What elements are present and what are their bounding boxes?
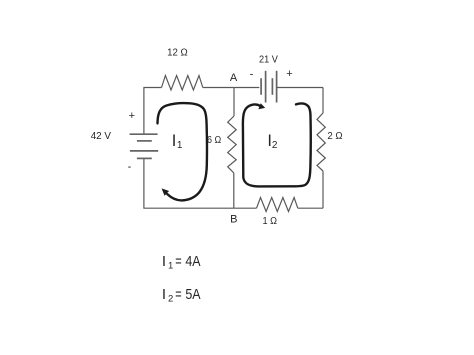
wire node A to 21V battery — [234, 87, 259, 89]
answer text I1 = 4A — [162, 253, 201, 272]
svg-text:I: I — [172, 132, 177, 150]
battery 42V plates — [130, 134, 159, 158]
svg-text:+: + — [129, 110, 135, 122]
wire left vertical (top segment above 42V battery) — [143, 88, 145, 135]
svg-text:2 Ω: 2 Ω — [327, 130, 342, 142]
svg-text:-: - — [250, 69, 254, 81]
wire bottom-right corner to 1 ohm — [298, 207, 323, 209]
svg-text:1: 1 — [177, 140, 183, 151]
mesh current loop I2 arrowhead — [258, 103, 265, 109]
wire left vertical (bottom segment below 42V battery) — [143, 158, 145, 208]
battery 21V plates — [261, 71, 277, 103]
resistor R 1 ohm — [257, 198, 298, 212]
mesh current loop I1 — [158, 103, 207, 200]
svg-text:6 Ω: 6 Ω — [207, 135, 222, 146]
svg-text:21 V: 21 V — [259, 54, 278, 66]
svg-text:=: = — [175, 253, 182, 270]
svg-text:A: A — [230, 72, 238, 84]
svg-text:I: I — [162, 253, 166, 270]
mesh current loop I1 arrowhead — [162, 188, 170, 195]
svg-text:42 V: 42 V — [91, 130, 111, 142]
svg-text:4A: 4A — [185, 253, 200, 270]
resistor R 6 ohm — [228, 116, 237, 173]
wire 12 ohm to node A — [203, 87, 234, 89]
wire right vertical (top segment) — [322, 88, 324, 114]
wire middle branch bottom (6 ohm down to node B) — [233, 173, 235, 208]
svg-text:I: I — [162, 286, 166, 303]
answer text I2 = 5A — [162, 286, 201, 305]
resistor R 12 ohm — [162, 76, 203, 91]
wire top-left (corner to 12 ohm resistor) — [143, 87, 161, 89]
wire middle branch top (node A down to 6 ohm) — [233, 88, 235, 117]
resistor R 2 ohm — [317, 113, 325, 171]
wire right vertical (bottom segment) — [322, 171, 324, 208]
svg-text:2: 2 — [272, 140, 278, 151]
wire 1 ohm to node B and bottom-left corner — [143, 207, 256, 209]
wire 21V battery to top-right corner — [277, 87, 323, 89]
svg-text:+: + — [286, 68, 292, 80]
svg-text:12 Ω: 12 Ω — [167, 46, 188, 58]
svg-text:B: B — [230, 214, 237, 226]
svg-text:2: 2 — [168, 294, 173, 305]
svg-text:=: = — [175, 286, 182, 303]
svg-text:-: - — [128, 161, 132, 173]
svg-text:5A: 5A — [185, 286, 200, 303]
svg-text:1 Ω: 1 Ω — [263, 215, 278, 227]
mesh current loop I2 — [243, 103, 311, 186]
svg-text:1: 1 — [168, 261, 173, 272]
